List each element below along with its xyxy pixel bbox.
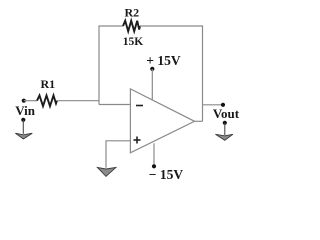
svg-text:15K: 15K	[123, 36, 144, 48]
resistor R1	[37, 95, 57, 106]
wire R1 to node	[57, 100, 99, 102]
svg-text:+ 15V: + 15V	[146, 53, 181, 68]
wire Vin terminal stem	[22, 120, 24, 134]
resistor R2	[123, 21, 140, 32]
op-amp plus pin symbol	[134, 139, 141, 141]
node Vin dot	[22, 99, 26, 103]
svg-text:R2: R2	[124, 6, 139, 20]
wire output	[195, 120, 203, 122]
wire +15V supply	[151, 69, 153, 101]
svg-text:Vout: Vout	[213, 106, 240, 121]
source terminal dot Vin	[21, 118, 25, 122]
terminal dot Vout	[223, 121, 227, 125]
wire feedback top right segment	[140, 26, 203, 121]
wire Vin to R1	[24, 100, 37, 102]
wire feedback top left segment	[99, 26, 123, 105]
ground arrow at plus input	[97, 167, 116, 176]
wire -15V supply	[153, 143, 155, 166]
wire noninverting input to ground	[106, 141, 130, 168]
svg-text:Vin: Vin	[15, 103, 36, 118]
wire inverting input	[99, 104, 130, 106]
op-amp U1 triangle	[130, 89, 194, 153]
node Vout dot	[221, 103, 225, 107]
wire Vout terminal stem	[224, 123, 226, 135]
svg-text:R1: R1	[40, 77, 55, 91]
op-amp minus pin symbol	[136, 105, 143, 107]
arrow Vout terminal	[215, 134, 233, 140]
node dot +15V	[150, 67, 154, 71]
node dot -15V	[152, 164, 156, 168]
wire Vout branch	[203, 104, 222, 106]
svg-text:− 15V: − 15V	[149, 167, 184, 182]
arrow Vin terminal	[15, 133, 32, 139]
